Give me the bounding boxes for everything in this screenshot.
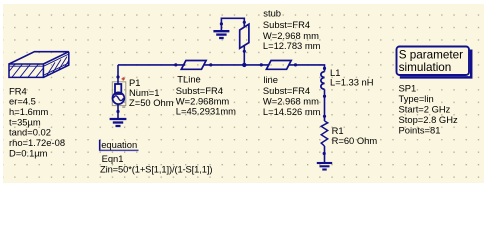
svg-text:stub: stub <box>263 7 281 18</box>
svg-text:L=14.526 mm: L=14.526 mm <box>263 106 321 117</box>
svg-text:L=1.33 nH: L=1.33 nH <box>330 77 374 88</box>
node dot line pin 2 <box>294 63 297 66</box>
ground below R1 <box>317 163 332 170</box>
ground at stub <box>213 31 229 38</box>
svg-text:Subst=FR4: Subst=FR4 <box>263 85 310 96</box>
resistor R1 zigzag <box>321 121 328 146</box>
substrate Subst1 (FR4) 3D slab symbol <box>9 52 69 78</box>
inductor L1 coil <box>321 72 325 90</box>
node dot L1 pin 2 <box>323 95 326 98</box>
stub labels <box>263 7 321 51</box>
node dot TLine pin 2 <box>209 63 212 66</box>
svg-text:Z=50 Ohm: Z=50 Ohm <box>129 97 174 108</box>
node dot R1 pin 1 <box>323 115 326 118</box>
wire L1 bottom to R1 top <box>324 89 326 121</box>
wire main line P1 corner to TLine pin 1 <box>118 64 185 66</box>
svg-text:Points=81: Points=81 <box>399 125 441 136</box>
equation Eqn1 frame <box>99 139 138 151</box>
junction node stub bottom on main line <box>242 63 246 67</box>
svg-text:SP1: SP1 <box>399 82 417 93</box>
wire line pin 2 to corner and down to L1 <box>289 65 325 72</box>
substrate FR4 parameter labels <box>9 85 65 158</box>
ground below P1 <box>110 119 127 126</box>
svg-text:FR4: FR4 <box>9 85 27 96</box>
wire junction to line pin 1 <box>244 64 269 66</box>
svg-text:Subst=FR4: Subst=FR4 <box>263 19 310 30</box>
svg-text:er=4.5: er=4.5 <box>9 96 36 107</box>
svg-text:rho=1.72e-08: rho=1.72e-08 <box>9 137 65 148</box>
transmission line stub (vertical) <box>240 24 249 48</box>
transmission line line symbol <box>266 61 291 70</box>
svg-text:simulation: simulation <box>399 61 452 74</box>
S-parameter simulation SP1 box <box>397 47 472 78</box>
wire stub pin 1 up and left to ground <box>221 18 244 31</box>
svg-text:line: line <box>263 74 278 85</box>
SP1 parameter labels <box>399 82 458 135</box>
svg-text:R=60 Ohm: R=60 Ohm <box>332 135 378 146</box>
svg-text:L=45.2931mm: L=45.2931mm <box>176 106 236 117</box>
svg-text:S parameter: S parameter <box>399 49 463 62</box>
wire R1 bottom to ground <box>324 146 326 163</box>
svg-text:Zin=50*(1+S[1,1])/(1-S[1,1]): Zin=50*(1+S[1,1])/(1-S[1,1]) <box>100 163 212 174</box>
resistor R1 labels <box>332 125 378 146</box>
node dot P1 pin 1 <box>116 75 119 78</box>
transmission line TLine symbol <box>181 61 206 70</box>
node dot stub ground pin <box>220 22 223 25</box>
svg-text:Type=lin: Type=lin <box>399 93 434 104</box>
svg-text:D=0.1µm: D=0.1µm <box>9 147 48 158</box>
node dot L1 pin 1 <box>323 67 326 70</box>
port P1 power source symbol <box>112 77 126 107</box>
wire junction up to stub pin 2 <box>243 46 245 65</box>
svg-text:Stop=2.8 GHz: Stop=2.8 GHz <box>399 114 458 125</box>
node dot stub pin 1 <box>243 21 246 24</box>
wire P1 bottom to ground <box>117 105 119 120</box>
wire P1 top to main horizontal line <box>117 65 119 77</box>
schematic paper background <box>3 4 484 183</box>
svg-text:t=35µm: t=35µm <box>9 116 41 127</box>
node dot P1 ground pin <box>116 110 119 113</box>
node dot TLine pin 1 <box>174 63 177 66</box>
svg-text:L=12.783 mm: L=12.783 mm <box>263 40 321 51</box>
node dot R1 pin 2 <box>323 152 326 155</box>
node dot stub pin 2 <box>243 50 246 53</box>
wire TLine pin 2 to junction <box>204 64 245 66</box>
equation Eqn1 labels <box>100 153 212 174</box>
svg-text:TLine: TLine <box>177 74 200 85</box>
svg-text:Start=2 GHz: Start=2 GHz <box>399 104 451 115</box>
svg-text:Eqn1: Eqn1 <box>102 153 124 164</box>
inductor L1 labels <box>330 67 374 88</box>
svg-text:equation: equation <box>101 139 137 150</box>
line labels <box>263 74 321 117</box>
port P1 labels <box>129 77 174 108</box>
node dot line pin 1 <box>260 63 263 66</box>
svg-text:h=1.6mm: h=1.6mm <box>9 106 49 117</box>
TLine labels <box>176 74 236 117</box>
svg-text:W=2.968 mm: W=2.968 mm <box>263 96 319 107</box>
